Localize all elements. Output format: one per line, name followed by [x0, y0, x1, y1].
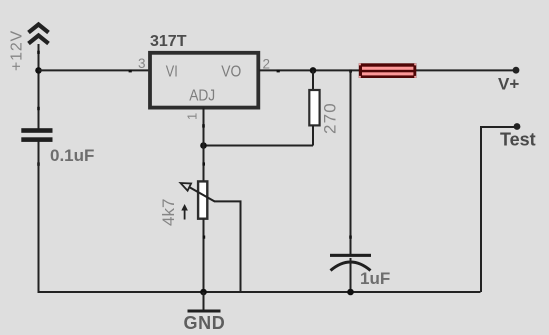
pin tick potentiometer bottom [203, 236, 206, 239]
svg-text:VI: VI [166, 64, 178, 81]
wire potentiometer down to ground rail [203, 219, 205, 293]
svg-text:V+: V+ [498, 75, 519, 94]
svg-text:+12V: +12V [9, 30, 26, 71]
wire ADJ pin down to potentiometer [203, 108, 205, 182]
svg-text:Test: Test [500, 130, 536, 150]
wire 1uF to ground rail [350, 258, 352, 292]
svg-text:2: 2 [263, 57, 271, 72]
wire ground rail (bottom) [38, 291, 481, 293]
capacitor 1uF curved plate [331, 262, 371, 271]
fuse [359, 63, 417, 78]
wire supply arrow down to 0.1uF [38, 44, 40, 129]
ground [188, 292, 221, 311]
supply arrow +12V [29, 25, 49, 44]
wire wiper to ground rail [214, 201, 241, 292]
trimmer up-arrow annotation [181, 204, 188, 220]
svg-text:270: 270 [321, 102, 340, 134]
svg-text:1uF: 1uF [360, 269, 390, 288]
terminal Test [514, 123, 521, 130]
potentiometer 4k7 body [198, 181, 207, 218]
pin tick 0.1uF bottom [37, 162, 40, 165]
potentiometer wiper arrowhead [181, 183, 192, 191]
svg-text:317T: 317T [150, 33, 187, 50]
svg-text:GND: GND [184, 313, 226, 333]
junction tick 1uF branch [349, 70, 352, 73]
terminal V+ [513, 67, 520, 74]
svg-text:0.1uF: 0.1uF [50, 146, 94, 165]
svg-text:VO: VO [221, 64, 241, 81]
pin tick 0.1uF top [37, 107, 40, 110]
wire resistor 270 to ADJ node [204, 145, 314, 147]
svg-text:1: 1 [185, 113, 200, 120]
junction input node [35, 67, 42, 74]
potentiometer wiper line [189, 187, 214, 201]
pin tick potentiometer top [202, 162, 205, 165]
pin tick supply [37, 51, 40, 54]
junction ground node [200, 289, 207, 296]
svg-text:4k7: 4k7 [159, 199, 178, 226]
wire resistor 270 down [312, 126, 314, 146]
junction ADJ node [200, 142, 207, 149]
pin tick ADJ pin 1 [202, 124, 205, 127]
capacitor 0.1uF [21, 128, 52, 142]
pin tick 1uF top [349, 236, 352, 239]
wire input node to pin VI [39, 69, 150, 71]
wire output to capacitor 1uF [350, 70, 352, 254]
wire Test terminal to ground rail [481, 127, 517, 292]
capacitor 1uF plate [330, 254, 371, 257]
pin tick VO pin 2 [277, 70, 280, 73]
svg-text:3: 3 [138, 56, 146, 71]
wire 0.1uF down to ground rail [38, 142, 40, 293]
junction output node [310, 67, 317, 74]
resistor 270 [309, 90, 319, 125]
junction 1uF ground node [347, 289, 354, 296]
regulator 317T body [150, 53, 258, 108]
pin tick VI pin 3 [129, 70, 132, 73]
wire output node down to resistor 270 [312, 70, 314, 90]
wire VO pin to fuse and V+ [259, 69, 516, 71]
svg-text:ADJ: ADJ [189, 88, 215, 105]
